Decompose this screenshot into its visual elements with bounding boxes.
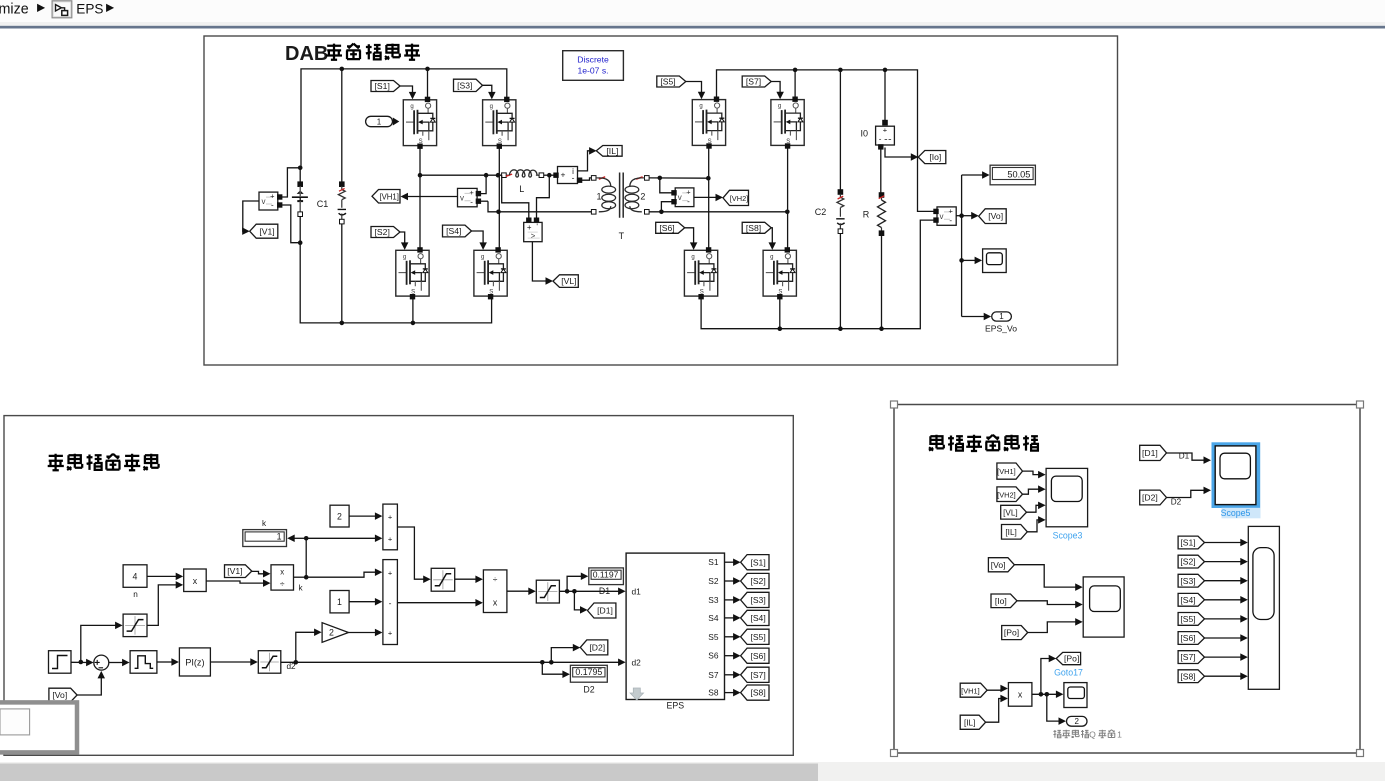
svg-text:[S7]: [S7] xyxy=(750,670,765,680)
svg-text:1: 1 xyxy=(596,191,601,201)
svg-text:[VH1]: [VH1] xyxy=(961,686,979,695)
svg-text:[S8]: [S8] xyxy=(746,223,761,233)
svg-text:S8: S8 xyxy=(708,688,719,698)
svg-text:x: x xyxy=(1018,690,1023,700)
svg-text:[S5]: [S5] xyxy=(750,632,765,642)
svg-text:PI(z): PI(z) xyxy=(185,658,204,668)
svg-text:v: v xyxy=(262,197,266,206)
svg-text:[S1]: [S1] xyxy=(375,81,390,91)
svg-text:Q: Q xyxy=(1089,730,1096,740)
svg-text:1: 1 xyxy=(999,312,1004,321)
svg-text:1e-07 s.: 1e-07 s. xyxy=(577,66,608,76)
svg-text:[VL]: [VL] xyxy=(561,276,576,286)
svg-text:DAB: DAB xyxy=(285,43,328,65)
svg-text:g: g xyxy=(490,104,493,110)
svg-text:[S7]: [S7] xyxy=(746,77,761,87)
svg-text:g: g xyxy=(770,254,773,260)
svg-text:[S2]: [S2] xyxy=(750,576,765,586)
svg-text:-: - xyxy=(470,197,473,206)
svg-text:[S6]: [S6] xyxy=(659,223,674,233)
svg-text:Scope3: Scope3 xyxy=(1053,531,1083,541)
svg-text:EPS: EPS xyxy=(666,700,684,710)
svg-text:S6: S6 xyxy=(708,651,719,661)
svg-text:[S4]: [S4] xyxy=(1180,595,1195,605)
svg-text:+: + xyxy=(388,568,393,577)
svg-text:S1: S1 xyxy=(708,557,719,567)
svg-text:[Io]: [Io] xyxy=(929,152,941,162)
svg-text:g: g xyxy=(699,104,702,110)
svg-text:-: - xyxy=(389,598,392,608)
svg-text:0.1795: 0.1795 xyxy=(575,667,602,677)
svg-text:D2: D2 xyxy=(583,685,594,695)
svg-text:0.1197: 0.1197 xyxy=(593,570,619,580)
svg-text:[S3]: [S3] xyxy=(750,595,765,605)
svg-text:S2: S2 xyxy=(708,576,719,586)
svg-text:[IL]: [IL] xyxy=(1005,528,1016,537)
svg-text:[S4]: [S4] xyxy=(446,226,461,236)
svg-text:EPS: EPS xyxy=(76,1,103,16)
svg-text:+: + xyxy=(527,223,532,232)
svg-text:x: x xyxy=(493,598,498,608)
svg-text:÷: ÷ xyxy=(493,574,498,584)
svg-text:1: 1 xyxy=(1117,730,1122,740)
svg-text:[Vo]: [Vo] xyxy=(988,211,1003,221)
svg-text:+: + xyxy=(949,206,954,215)
svg-text:[S5]: [S5] xyxy=(1180,614,1195,624)
svg-text:Discrete: Discrete xyxy=(577,55,609,65)
svg-text:[D2]: [D2] xyxy=(1142,493,1158,503)
svg-text:50.05: 50.05 xyxy=(1007,170,1030,180)
svg-text:x: x xyxy=(280,568,284,577)
svg-text:[Vo]: [Vo] xyxy=(991,560,1006,570)
svg-text:S7: S7 xyxy=(708,670,719,680)
svg-text:g: g xyxy=(403,254,406,260)
svg-text:T: T xyxy=(619,231,625,241)
svg-text:-: - xyxy=(879,135,882,144)
svg-text:[IL]: [IL] xyxy=(964,718,975,727)
svg-text:[D2]: [D2] xyxy=(589,643,605,653)
svg-text:S5: S5 xyxy=(708,632,719,642)
svg-text:[S3]: [S3] xyxy=(1180,576,1195,586)
svg-text:[S4]: [S4] xyxy=(750,613,765,623)
svg-text:n: n xyxy=(133,590,138,599)
svg-text:g: g xyxy=(481,254,484,260)
svg-text:[S2]: [S2] xyxy=(375,227,390,237)
svg-text:[S7]: [S7] xyxy=(1180,652,1195,662)
svg-text:4: 4 xyxy=(133,572,138,582)
svg-text:-: - xyxy=(271,201,274,210)
svg-text:v: v xyxy=(678,193,682,202)
svg-text:[Io]: [Io] xyxy=(995,596,1007,606)
svg-text:D1: D1 xyxy=(599,586,610,596)
svg-text:[VH2]: [VH2] xyxy=(997,490,1015,499)
svg-text:1: 1 xyxy=(277,531,282,541)
svg-text:1: 1 xyxy=(337,597,342,607)
svg-text:[VH1]: [VH1] xyxy=(379,192,399,201)
svg-text:x: x xyxy=(193,576,198,586)
svg-text:[S1]: [S1] xyxy=(1180,538,1195,548)
svg-text:[S8]: [S8] xyxy=(750,688,765,698)
svg-text:[S2]: [S2] xyxy=(1180,557,1195,567)
svg-text:+: + xyxy=(686,187,691,196)
svg-text:EPS_Vo: EPS_Vo xyxy=(985,324,1017,334)
svg-text:+: + xyxy=(388,512,393,521)
svg-text:>: > xyxy=(531,232,536,241)
svg-text:g: g xyxy=(691,254,694,260)
svg-text:d2: d2 xyxy=(632,657,642,667)
svg-text:[Po]: [Po] xyxy=(1064,654,1079,664)
svg-text:-: - xyxy=(572,173,575,183)
svg-text:mize: mize xyxy=(0,1,29,17)
svg-text:2: 2 xyxy=(329,628,334,638)
svg-text:2: 2 xyxy=(337,512,342,522)
svg-text:[V1]: [V1] xyxy=(259,226,274,236)
svg-text:d1: d1 xyxy=(632,586,642,596)
svg-text:2: 2 xyxy=(640,191,645,201)
svg-text:+: + xyxy=(883,126,888,135)
svg-text:+: + xyxy=(469,188,474,197)
svg-text:[Vo]: [Vo] xyxy=(52,690,67,700)
svg-text:[S1]: [S1] xyxy=(750,557,765,567)
svg-text:[S6]: [S6] xyxy=(750,651,765,661)
svg-text:[IL]: [IL] xyxy=(606,146,618,156)
svg-text:+: + xyxy=(388,629,393,638)
svg-text:[VL]: [VL] xyxy=(1003,508,1018,517)
svg-text:v: v xyxy=(460,194,464,203)
svg-text:[S3]: [S3] xyxy=(457,81,472,91)
svg-text:g: g xyxy=(778,104,781,110)
svg-text:Goto17: Goto17 xyxy=(1054,668,1083,678)
svg-text:C2: C2 xyxy=(815,207,827,217)
svg-text:R: R xyxy=(863,210,870,220)
svg-text:2: 2 xyxy=(1074,717,1079,726)
svg-text:[S8]: [S8] xyxy=(1180,671,1195,681)
svg-text:[VH1]: [VH1] xyxy=(997,467,1015,476)
svg-text:[D1]: [D1] xyxy=(1142,448,1158,458)
svg-text:-: - xyxy=(949,216,952,225)
svg-text:I0: I0 xyxy=(860,129,868,139)
svg-text:v: v xyxy=(940,212,944,221)
svg-text:g: g xyxy=(410,104,413,110)
svg-text:S4: S4 xyxy=(708,613,719,623)
svg-text:[D1]: [D1] xyxy=(597,606,613,616)
svg-text:[V1]: [V1] xyxy=(227,566,242,576)
svg-text:C1: C1 xyxy=(317,199,329,209)
svg-text:+: + xyxy=(270,192,275,201)
svg-text:+: + xyxy=(388,535,393,544)
svg-text:[S5]: [S5] xyxy=(660,77,675,87)
svg-text:L: L xyxy=(519,184,524,194)
svg-text:[Po]: [Po] xyxy=(1004,628,1019,638)
svg-text:S3: S3 xyxy=(708,595,719,605)
svg-text:D2: D2 xyxy=(1171,498,1182,507)
svg-text:1: 1 xyxy=(377,117,382,126)
svg-text:Scope5: Scope5 xyxy=(1221,508,1251,518)
svg-text:[S6]: [S6] xyxy=(1180,633,1195,643)
svg-text:-: - xyxy=(687,197,690,206)
svg-text:÷: ÷ xyxy=(280,579,285,589)
svg-text:+: + xyxy=(561,170,566,180)
svg-text:[VH2]: [VH2] xyxy=(730,194,748,203)
